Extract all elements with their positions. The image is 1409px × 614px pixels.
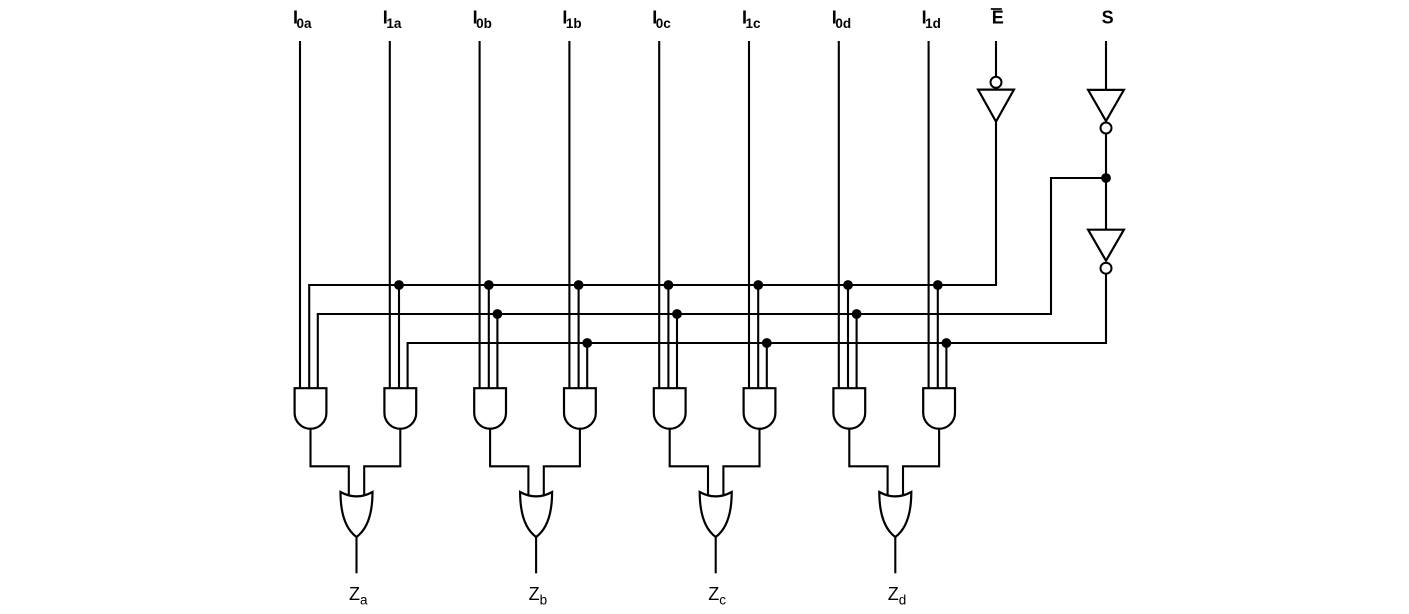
wire output Zc xyxy=(715,536,717,573)
junction node Sbar xyxy=(1101,173,1111,183)
wire G7 output to OR gate G12 xyxy=(849,428,887,496)
junction dot S bus at G6 xyxy=(762,338,772,348)
wire select drop to gate G6 xyxy=(766,343,768,389)
AND gate G8 (I1d branch) xyxy=(923,388,955,429)
wire output Za xyxy=(355,536,357,573)
AND gate G3 (I0b branch) xyxy=(474,388,506,429)
AND gate G6 (I1c branch) xyxy=(744,388,776,429)
wire E input stub xyxy=(995,41,997,77)
svg-text:E: E xyxy=(992,8,1004,28)
input label E (active-low enable, overbar) xyxy=(991,8,1004,28)
junction dot enable bus at G7 xyxy=(843,280,853,290)
wire enable drop to gate G6 xyxy=(757,285,759,389)
svg-text:S: S xyxy=(1102,8,1114,28)
wire select drop to gate G2 xyxy=(407,343,409,389)
junction dot enable bus at G6 xyxy=(753,280,763,290)
OR gate G12 (output Zd) xyxy=(879,492,911,537)
junction dot enable bus at G5 xyxy=(664,280,674,290)
wire select drop to gate G4 xyxy=(586,343,588,389)
wire input I1a vertical xyxy=(389,41,391,389)
AND gate G4 (I1b branch) xyxy=(564,388,596,429)
wire enable drop to gate G3 xyxy=(488,285,490,389)
wire bus 3: net S horizontal xyxy=(407,342,1107,344)
junction dot enable bus at G8 xyxy=(933,280,943,290)
wire select drop to gate G3 xyxy=(496,314,498,389)
wire G1 output to OR gate G9 xyxy=(311,428,349,496)
inverter U2 select (output bubble) xyxy=(1088,90,1124,134)
junction dot enable bus at G3 xyxy=(484,280,494,290)
AND gate G5 (I0c branch) xyxy=(654,388,686,429)
wire bus 2: net Sbar horizontal xyxy=(317,313,1052,315)
inverter U3 select (output bubble) xyxy=(1088,230,1124,274)
wire U3 output down to bus 3 xyxy=(1105,274,1107,344)
junction dot S bus at G4 xyxy=(582,338,592,348)
wire net Sbar: U2 output down to U3 input xyxy=(1105,133,1107,230)
wire U1 output to enable bus xyxy=(995,122,997,285)
wire select drop to gate G5 xyxy=(676,314,678,389)
wire bus 1: enable net E horizontal xyxy=(308,284,997,286)
wire enable drop to gate G5 xyxy=(667,285,669,389)
wire G2 output to OR gate G9 xyxy=(364,428,400,496)
AND gate G1 (I0a branch) xyxy=(295,388,327,429)
wire S input stub xyxy=(1105,41,1107,91)
wire enable drop to gate G4 xyxy=(578,285,580,389)
wire input I0d vertical xyxy=(838,41,840,389)
junction dot Sbar bus at G3 xyxy=(493,309,503,319)
wire input I0b vertical xyxy=(479,41,481,389)
junction dot Sbar bus at G5 xyxy=(672,309,682,319)
OR gate G11 (output Zc) xyxy=(700,492,732,537)
wire net Sbar tap to bus 2 xyxy=(1051,178,1106,314)
inverter U1 enable (input bubble) xyxy=(978,77,1014,122)
wire select drop to gate G1 xyxy=(317,314,319,389)
wire select drop to gate G8 xyxy=(945,343,947,389)
wire G4 output to OR gate G10 xyxy=(544,428,580,496)
wire enable drop to gate G7 xyxy=(847,285,849,389)
wire enable drop to gate G2 xyxy=(398,285,400,389)
AND gate G7 (I0d branch) xyxy=(833,388,865,429)
wire output Zb xyxy=(535,536,537,573)
wire G8 output to OR gate G12 xyxy=(903,428,939,496)
OR gate G9 (output Za) xyxy=(341,492,373,537)
wire G3 output to OR gate G10 xyxy=(490,428,528,496)
wire G5 output to OR gate G11 xyxy=(670,428,708,496)
wire input I1c vertical xyxy=(748,41,750,389)
wire select drop to gate G7 xyxy=(856,314,858,389)
wire input I1b vertical xyxy=(568,41,570,389)
wire output Zd xyxy=(894,536,896,573)
wire enable drop to gate G1 xyxy=(308,285,310,389)
wire input I1d vertical xyxy=(928,41,930,389)
wire input I0a vertical xyxy=(299,41,301,389)
OR gate G10 (output Zb) xyxy=(520,492,552,537)
wire enable drop to gate G8 xyxy=(937,285,939,389)
wire input I0c vertical xyxy=(658,41,660,389)
junction dot enable bus at G2 xyxy=(394,280,404,290)
junction dot S bus at G8 xyxy=(942,338,952,348)
AND gate G2 (I1a branch) xyxy=(384,388,416,429)
wire G6 output to OR gate G11 xyxy=(723,428,759,496)
junction dot enable bus at G4 xyxy=(574,280,584,290)
junction dot Sbar bus at G7 xyxy=(852,309,862,319)
